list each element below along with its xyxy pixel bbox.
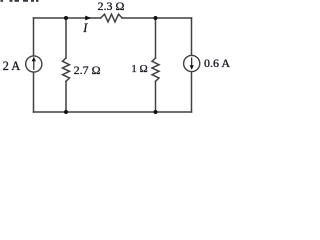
svg-text:1 Ω: 1 Ω [131, 63, 147, 75]
svg-text:2 A: 2 A [3, 59, 21, 73]
svg-text:2.7 Ω: 2.7 Ω [74, 63, 101, 77]
svg-text:I: I [82, 21, 88, 35]
svg-text:0.6 A: 0.6 A [204, 56, 230, 70]
svg-text:2.3 Ω: 2.3 Ω [98, 0, 125, 13]
